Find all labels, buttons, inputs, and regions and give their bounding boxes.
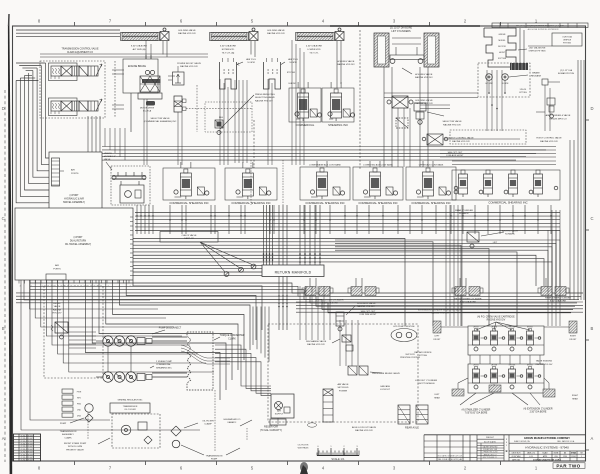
svg-text:CK BY WEH: CK BY WEH [512,456,522,458]
svg-text:DUAL RETURN: DUAL RETURN [70,239,87,242]
svg-text:LEFT: LEFT [435,336,441,338]
svg-text:AS OF (DATE): AS OF (DATE) [484,440,496,443]
svg-text:#1 261 4 170 0071: #1 261 4 170 0071 [20,452,33,454]
svg-text:PUMP DISCONNECT: PUMP DISCONNECT [159,328,182,330]
svg-text:C: C [591,216,594,221]
svg-text:(4 PORT: (4 PORT [73,237,83,239]
svg-text:10 GPM: 10 GPM [247,62,255,64]
svg-text:D: D [2,106,5,111]
svg-text:ORIFICE FITTING: ORIFICE FITTING [528,51,545,53]
svg-text:FRONT STEER PUMP: FRONT STEER PUMP [64,443,87,445]
svg-text:SELECTOR VALVE: SELECTOR VALVE [150,117,170,120]
svg-text:OIL COOLER: OIL COOLER [124,409,136,411]
svg-text:RACINE HYD DIV: RACINE HYD DIV [255,99,273,102]
svg-text:TILT CYL (A): TILT CYL (A) [222,51,235,54]
svg-text:FRONT: FRONT [434,339,442,341]
svg-text:RACINE HYD DIV: RACINE HYD DIV [443,123,461,126]
svg-text:BELL SAW DIV. U.S.A.: BELL SAW DIV. U.S.A. [557,440,575,443]
svg-text:LOCKOUT: LOCKOUT [380,389,391,391]
svg-text:RIGHT: RIGHT [572,395,579,397]
svg-text:VALVE STAGING: VALVE STAGING [536,360,553,363]
svg-text:COMMERCIAL SHEARING INC: COMMERCIAL SHEARING INC [488,201,527,205]
svg-text:#1 261 4 170 0071: #1 261 4 170 0071 [20,441,33,443]
svg-text:HOLDING VALVE: HOLDING VALVE [337,60,355,63]
svg-text:PUMP: PUMP [60,423,67,425]
svg-text:B: B [591,326,594,331]
svg-text:.060" DIA GROVE: .060" DIA GROVE [529,47,546,50]
svg-text:ANGLE CIR 1.17: ANGLE CIR 1.17 [484,453,497,456]
svg-text:KOMATIC: KOMATIC [505,233,515,236]
svg-text:COMMERCIAL SHEARING INC: COMMERCIAL SHEARING INC [358,201,397,205]
svg-text:OUST DIA: OUST DIA [562,36,572,39]
svg-text:COMMERCIAL SHEARING INC: COMMERCIAL SHEARING INC [411,201,450,205]
svg-text:ALT SIZE (A): ALT SIZE (A) [133,48,146,51]
svg-text:AIR: AIR [55,264,59,267]
svg-text:MOTOR: MOTOR [498,46,506,48]
svg-text:4-74: 4-74 [529,456,532,458]
svg-text:REAR: REAR [572,397,578,400]
svg-text:7.00"/5.00" DIA BORE: 7.00"/5.00" DIA BORE [465,412,488,415]
svg-text:W/BYPASS: W/BYPASS [298,447,309,450]
svg-text:REL 1 FEB 74 | EO 4721 |: REL 1 FEB 74 | EO 4721 | AB [438,458,463,461]
svg-text:B: B [506,449,508,453]
svg-text:REG: REG [219,117,224,119]
svg-text:HOLDING VALVE: HOLDING VALVE [267,29,285,32]
svg-text:FITTING: FITTING [519,92,527,94]
svg-text:FRONT: FRONT [570,339,578,341]
svg-text:LOCKOUT CYLINDER: LOCKOUT CYLINDER [415,380,438,382]
svg-text:RACINE HYD DIV: RACINE HYD DIV [540,140,558,143]
svg-text:D 97940 1294-HYD SH 1 OF: D 97940 1294-HYD SH 1 OF 2 [533,458,561,461]
svg-text:STR THD: STR THD [287,72,296,74]
svg-text:COMMERCIAL SHEARING INC: COMMERCIAL SHEARING INC [305,201,344,205]
svg-text:SHADY GROVE, PA.: SHADY GROVE, PA. [514,440,530,443]
svg-text:HYD PUMP PRESTIGE: HYD PUMP PRESTIGE [393,326,415,328]
svg-text:97940: 97940 [571,452,576,455]
svg-text:REL|CHG| 4721 | AB | CHANGE: REL|CHG| 4721 | AB | CHANGED PER | 27 E … [516,25,565,28]
svg-text:ORIFICE: ORIFICE [563,40,572,42]
svg-text:TRANSMISSION: TRANSMISSION [206,455,223,458]
svg-text:F377168: F377168 [498,58,507,60]
svg-text:BENDIX MFG CO: BENDIX MFG CO [549,118,567,120]
svg-text:(COMMERCIAL SHEARING) INC: (COMMERCIAL SHEARING) INC [144,120,177,123]
svg-text:HOLDING VALVE: HOLDING VALVE [415,73,433,76]
svg-text:4.50" DIA BORE: 4.50" DIA BORE [306,45,323,48]
svg-text:SHEARING INC: SHEARING INC [156,366,172,369]
svg-text:AIR: AIR [71,169,75,172]
svg-text:FITTING: FITTING [563,43,571,45]
svg-text:#1 261 4 170 0071: #1 261 4 170 0071 [20,446,33,448]
svg-text:TILT CYL: TILT CYL [309,52,319,54]
svg-text:REAR: REAR [434,396,440,399]
svg-text:RACINE HYD DIV: RACINE HYD DIV [307,343,325,346]
svg-text:HOLDING VALVE: HOLDING VALVE [415,99,433,102]
svg-text:TRANSMISSION: TRANSMISSION [60,430,77,433]
svg-text:AXLE LOCKOUT VALVE: AXLE LOCKOUT VALVE [352,426,377,429]
svg-text:SET FILED: SET FILED [337,387,348,389]
svg-text:HYDRAULIC SYSTEMS - 97940: HYDRAULIC SYSTEMS - 97940 [525,446,569,450]
svg-text:LOWER MID AUX CONT BANK: LOWER MID AUX CONT BANK [363,164,393,167]
svg-text:CHECK VALVE: CHECK VALVE [182,234,198,237]
svg-text:ALL HOSE IS PER ILL EXTERIOR: ALL HOSE IS PER ILL EXTERIOR [528,28,559,31]
svg-text:PORTS: PORTS [53,268,61,270]
svg-text:DR BY RLH: DR BY RLH [512,453,521,455]
svg-text:LOWER/RAISE AUX CONT BANK: LOWER/RAISE AUX CONT BANK [309,164,341,167]
svg-text:HYD DIV: HYD DIV [53,313,62,315]
svg-text:BRAKE: BRAKE [532,72,540,75]
svg-text:HYDRAULIC & AIR: HYDRAULIC & AIR [64,197,84,200]
svg-text:ENGINE BRAKE: ENGINE BRAKE [128,65,146,68]
svg-text:HOIST: HOIST [499,52,506,54]
svg-text:SHEARING INC: SHEARING INC [328,123,348,127]
svg-text:HOLDING VALVE: HOLDING VALVE [178,29,196,32]
svg-text:HEB TOOL: HEB TOOL [288,59,299,61]
svg-text:CLAMP: CLAMP [204,423,212,426]
svg-text:EXTER HYD: EXTER HYD [222,49,235,51]
svg-text:SEE OPT OUT: SEE OPT OUT [448,152,463,154]
svg-text:HOIST CONTROL VALVE: HOIST CONTROL VALVE [536,137,562,140]
svg-text:RACINE HYD DIV: RACINE HYD DIV [355,429,373,432]
svg-text:LH RSR: LH RSR [491,365,498,367]
svg-text:CASCADE: CASCADE [380,385,391,388]
svg-text:SUP FOR: SUP FOR [405,354,415,356]
svg-text:5/16-24: 5/16-24 [520,89,526,91]
svg-text:D: D [591,106,594,111]
svg-text:POWER BOOST VALVE: POWER BOOST VALVE [177,62,201,65]
svg-text:(4) EXTENSION CYLINDER: (4) EXTENSION CYLINDER [524,409,553,411]
svg-text:UPPER AUX CONT BANK: UPPER AUX CONT BANK [419,164,444,167]
svg-text:VALVE: VALVE [104,158,111,161]
svg-text:RACINE HYD DIV: RACINE HYD DIV [178,32,196,35]
svg-text:LIFT: LIFT [493,242,498,244]
svg-text:FOR 20M HOIST: FOR 20M HOIST [360,314,377,316]
svg-text:RACINE HYD DIV: RACINE HYD DIV [267,32,285,35]
svg-text:FITTING: FITTING [419,355,427,357]
svg-text:TRANSMISSION: TRANSMISSION [123,405,138,408]
svg-text:RH RSR: RH RSR [509,365,516,367]
svg-text:1: 1 [581,456,582,458]
svg-text:NONE: NONE [554,453,559,455]
svg-text:WITH 10 GPM: WITH 10 GPM [68,446,82,448]
svg-text:#1 261 4 170 0071: #1 261 4 170 0071 [20,444,33,446]
svg-text:#1 261 4 170 0071: #1 261 4 170 0071 [20,435,33,437]
svg-text:CLARK: CLARK [64,436,72,439]
svg-text:COMMERCIAL SHEARING INC: COMMERCIAL SHEARING INC [169,201,208,205]
svg-text:2ND: 2ND [77,410,81,412]
svg-text:8.50" DIA BORE: 8.50" DIA BORE [131,45,148,48]
svg-text:REAR AXLE: REAR AXLE [405,427,419,430]
svg-text:COMMERCIAL: COMMERCIAL [156,363,172,366]
svg-text:GROVE MANUFACTURING COMPANY: GROVE MANUFACTURING COMPANY [524,436,570,440]
svg-text:12941: 12941 [571,456,576,458]
svg-text:MODEL: MODEL [498,40,506,42]
svg-text:(4 PORT: (4 PORT [69,195,79,197]
svg-text:2 STAGE PUMP: 2 STAGE PUMP [156,360,173,363]
svg-text:SWIVEL ASSEMBLY): SWIVEL ASSEMBLY) [63,201,85,204]
svg-text:RACINE HYD DIV: RACINE HYD DIV [415,76,433,79]
svg-text:(2) 1.12" DIA: (2) 1.12" DIA [560,69,573,72]
svg-text:HIGHWAY AIR CO: HIGHWAY AIR CO [224,418,241,421]
svg-text:GRKVE: GRKVE [498,34,506,36]
svg-text:(4) STABILIZER CYLINDER: (4) STABILIZER CYLINDER [462,409,491,412]
svg-text:KAMATIC: KAMATIC [228,421,237,424]
svg-text:HEB TOOL: HEB TOOL [246,59,257,61]
svg-text:RETURN MANIFOLD: RETURN MANIFOLD [275,270,312,274]
svg-text:GA WET SPECTED: GA WET SPECTED [483,446,499,449]
svg-text:AIR: AIR [277,410,281,413]
svg-text:#1 261 4 170 0071: #1 261 4 170 0071 [20,438,33,440]
svg-text:(4) P.O. CREW VALVE CARTRIDGE: (4) P.O. CREW VALVE CARTRIDGE [477,316,515,319]
svg-text:SELECTOR VALVE: SELECTOR VALVE [442,120,462,123]
svg-text:PORTS: PORTS [71,173,79,175]
svg-text:RACINE HYD DIV: RACINE HYD DIV [536,363,553,366]
svg-text:OIL FILTER: OIL FILTER [298,445,309,447]
svg-text:RELEASE: RELEASE [531,75,542,78]
svg-text:MOTOR DRIVE: MOTOR DRIVE [140,108,155,110]
svg-text:SCALE 1=1: SCALE 1=1 [331,458,345,461]
svg-text:#1 261 4 170 0071: #1 261 4 170 0071 [20,449,33,451]
svg-text:AIR VALVE: AIR VALVE [338,383,350,386]
svg-text:RH RSR: RH RSR [509,327,516,329]
svg-text:DISCHARGE VALVE: DISCHARGE VALVE [306,340,327,343]
svg-text:RACINE HYD DIV: RACINE HYD DIV [180,65,198,68]
svg-text:PWR: PWR [77,392,82,394]
svg-text:SOLENOID VALVE: SOLENOID VALVE [357,302,376,305]
svg-text:PUMP: PUMP [211,459,218,461]
svg-text:T-BOTTOM AXLE: T-BOTTOM AXLE [417,382,435,385]
svg-text:RACINE HYD DIV: RACINE HYD DIV [337,63,355,66]
svg-text:DNG: DNG [77,416,82,418]
svg-text:LIFT CYLINDERS: LIFT CYLINDERS [391,30,411,33]
svg-text:TRANSMISSION CONTROL VALVE: TRANSMISSION CONTROL VALVE [62,48,99,51]
svg-text:FWD: FWD [77,404,82,406]
svg-text:PAR TWO: PAR TWO [556,463,580,468]
svg-text:GENERAL REGULATOR INC: GENERAL REGULATOR INC [118,399,143,402]
svg-text:BOMAR PISTON: BOMAR PISTON [558,72,574,75]
svg-text:RACINE HYD DIV: RACINE HYD DIV [452,140,470,143]
svg-text:TORQUE CONVERTER: TORQUE CONVERTER [220,335,245,337]
svg-text:#1 261 4 170 0071: #1 261 4 170 0071 [20,460,33,462]
svg-text:WEIGHT: WEIGHT [486,437,495,439]
svg-text:RH EXT: RH EXT [527,327,533,329]
svg-text:FRICTION EFF 1.1: FRICTION EFF 1.1 [483,457,498,459]
svg-text:6.50" DIA BORE: 6.50" DIA BORE [220,45,237,48]
svg-text:C: C [2,216,5,221]
svg-text:SUPPLY: SUPPLY [275,414,284,416]
svg-text:DART-1/2: DART-1/2 [184,237,194,240]
svg-text:A: A [2,436,5,441]
svg-text:AIR HYD VALVE: AIR HYD VALVE [502,230,519,233]
svg-text:LH EXT: LH EXT [473,327,479,329]
svg-text:B: B [2,326,5,331]
svg-text:LEFT: LEFT [435,394,441,396]
svg-text:#1 261 4 170 0071: #1 261 4 170 0071 [20,457,33,459]
svg-text:A: A [591,436,594,441]
svg-text:(70 GAL CAPACITY): (70 GAL CAPACITY) [260,429,282,432]
svg-text:PRIORITY VALVE: PRIORITY VALVE [66,448,84,451]
svg-text:REAR STEER CYLINDER: REAR STEER CYLINDER [545,297,571,300]
svg-text:COMMERCIAL: COMMERCIAL [296,123,315,127]
svg-text:2.50" DIA BORE: 2.50" DIA BORE [530,411,547,414]
svg-text:1294: 1294 [563,456,567,458]
svg-text:VALVE: VALVE [54,305,61,308]
svg-text:LH EXT: LH EXT [473,365,479,367]
svg-text:RIGHT: RIGHT [570,336,577,338]
svg-text:CLARK EQUIPMENT CO: CLARK EQUIPMENT CO [67,51,93,54]
svg-text:OIL FILTER: OIL FILTER [202,421,214,423]
svg-text:RAP AIR ORIFICE: RAP AIR ORIFICE [414,351,432,354]
svg-text:FRONT STEER CYLINDER: FRONT STEER CYLINDER [454,299,481,301]
svg-text:NO.| DATE | CHANGE | DR | CK: NO.| DATE | CHANGE | DR | CK [438,454,463,457]
svg-text:CLARK: CLARK [228,337,236,340]
svg-text:RH EXT: RH EXT [527,365,533,367]
svg-text:LOWER HYD: LOWER HYD [307,49,321,51]
svg-text:PRESTIGE SYSTEM: PRESTIGE SYSTEM [400,357,420,359]
svg-text:OIL SWIVEL ASSEMBLY): OIL SWIVEL ASSEMBLY) [65,243,92,246]
svg-text:POWER: POWER [339,390,348,392]
svg-text:RACINE HYD DIV: RACINE HYD DIV [487,319,506,322]
svg-text:#1 261 4 170 0071: #1 261 4 170 0071 [20,454,33,456]
svg-text:ASSEMBLY: ASSEMBLY [62,433,74,436]
